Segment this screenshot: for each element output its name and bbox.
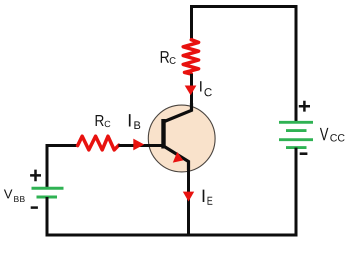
label RC (base resistor) bbox=[96, 115, 111, 127]
transistor Q1: emitter arrow (red) bbox=[173, 152, 184, 163]
wire: right vertical from VCC down to bottom rail bbox=[295, 148, 298, 237]
battery VBB: short plate (-) bbox=[37, 196, 58, 199]
plus sign (VBB) bbox=[30, 170, 41, 182]
current arrow IC (red, pointing down) bbox=[185, 86, 197, 96]
battery VCC: plate 4 short bbox=[286, 146, 307, 149]
label IC bbox=[200, 81, 212, 96]
wire: left vertical from base wire down to VBB bbox=[46, 144, 49, 188]
wire: emitter vertical below transistor bbox=[187, 168, 190, 236]
plus sign (VCC) bbox=[299, 101, 310, 112]
wire: collector vertical below resistor into transistor bbox=[190, 74, 193, 110]
wire: bottom rail bbox=[46, 234, 298, 237]
label IB bbox=[129, 114, 140, 129]
minus sign (VCC) bbox=[300, 152, 308, 155]
resistor RC (base, horizontal zigzag) bbox=[78, 136, 119, 150]
transistor Q1: collector lead inside circle bbox=[164, 103, 192, 122]
battery VCC: plate 1 long bbox=[279, 121, 313, 124]
transistor Q1: body circle bbox=[148, 105, 215, 172]
transistor Q1: base bar bbox=[161, 119, 165, 149]
resistor RC (collector, vertical zigzag) bbox=[183, 40, 198, 74]
current arrow IB (red, pointing right) bbox=[133, 139, 144, 151]
label IE bbox=[203, 190, 213, 205]
wire: left vertical from VBB down to bottom rail bbox=[46, 197, 49, 237]
minus sign (VBB) bbox=[31, 206, 38, 209]
wire: right vertical from top rail down to VCC bbox=[295, 5, 298, 122]
current arrow IE (red, pointing down) bbox=[183, 192, 194, 202]
battery VCC: plate 3 long bbox=[279, 138, 313, 141]
wire: top rail from collector branch to VCC branch bbox=[190, 5, 297, 8]
wire: base wire from resistor into transistor base bbox=[118, 144, 163, 147]
wire: collector vertical above resistor bbox=[190, 5, 193, 40]
battery VBB: long plate (+) bbox=[32, 187, 64, 190]
label VCC bbox=[320, 128, 345, 142]
label RC (collector resistor) bbox=[161, 51, 176, 64]
battery VCC: plate 2 short bbox=[286, 129, 307, 132]
transistor Q1: emitter lead inside circle bbox=[164, 146, 189, 170]
label VBB bbox=[4, 189, 25, 202]
wire: base wire from VBB branch to resistor bbox=[47, 144, 78, 147]
